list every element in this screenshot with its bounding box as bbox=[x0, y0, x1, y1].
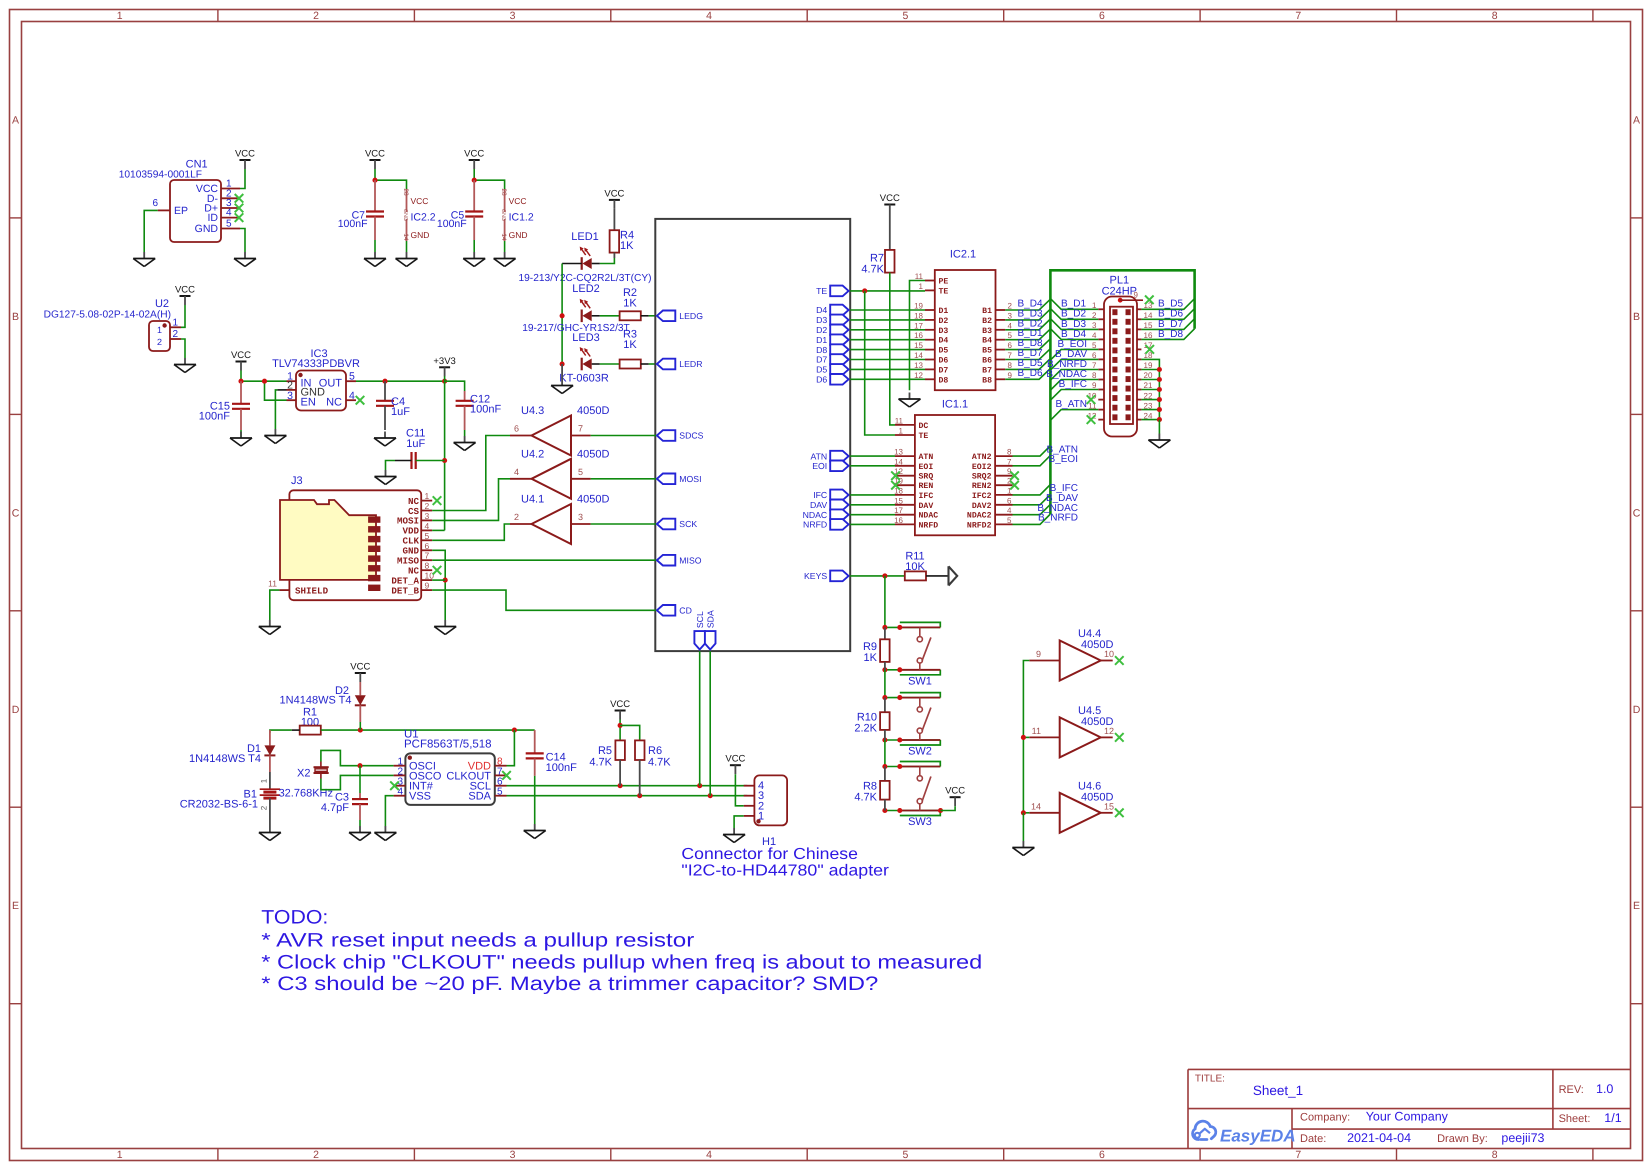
svg-text:1: 1 bbox=[117, 1149, 123, 1161]
annotation connector text bbox=[681, 846, 889, 880]
svg-text:GND: GND bbox=[402, 209, 408, 221]
port EOI on MCU right bbox=[812, 461, 848, 472]
resistor R5 4.7K bbox=[589, 740, 625, 785]
svg-text:D7: D7 bbox=[816, 355, 827, 365]
svg-text:4: 4 bbox=[425, 521, 430, 531]
svg-text:EOI2: EOI2 bbox=[972, 463, 992, 472]
svg-text:1: 1 bbox=[899, 427, 904, 436]
svg-text:9: 9 bbox=[1008, 371, 1013, 380]
wire U4.3 output to port bbox=[591, 435, 656, 437]
svg-text:D4: D4 bbox=[939, 337, 949, 346]
wire IC1.1 to bus net B_IFC bbox=[1013, 483, 1079, 495]
wire SW1 to SW2 bbox=[884, 670, 886, 698]
power flag VCC at C5 bbox=[464, 149, 484, 170]
wire C7 to ground bbox=[374, 240, 376, 252]
wire IC1.1 to bus net B_ATN bbox=[1013, 444, 1079, 456]
svg-text:B3: B3 bbox=[982, 327, 992, 336]
wire IC1.2 GND pin to ground bbox=[504, 241, 506, 252]
wire CN1 GND pin5 to ground bbox=[240, 229, 245, 253]
svg-text:GND: GND bbox=[509, 230, 528, 240]
svg-text:D1: D1 bbox=[816, 335, 827, 345]
svg-text:13: 13 bbox=[894, 448, 903, 457]
svg-text:7: 7 bbox=[1295, 1149, 1301, 1161]
svg-text:B2: B2 bbox=[982, 317, 992, 326]
port SDA on MCU bottom bbox=[705, 610, 716, 649]
power flag VCC at C7 bbox=[365, 149, 385, 170]
wire J3 GND to ground rail bbox=[432, 550, 448, 620]
resistor R6 4.7K bbox=[635, 740, 671, 795]
capacitor C4 1uF bbox=[376, 381, 410, 430]
wire PL1 pin5 net B_EOI bbox=[1050, 339, 1098, 360]
svg-text:14: 14 bbox=[1031, 801, 1041, 811]
svg-text:SHIELD: SHIELD bbox=[295, 586, 329, 597]
wire C12 to ground bbox=[464, 430, 466, 436]
svg-text:KEYS: KEYS bbox=[804, 571, 827, 581]
ground at IC2.2 bbox=[396, 252, 418, 267]
power flag VCC at R5 R6 bbox=[610, 699, 630, 720]
svg-text:4.7K: 4.7K bbox=[854, 792, 877, 804]
svg-text:VCC: VCC bbox=[604, 188, 624, 199]
svg-text:1: 1 bbox=[173, 318, 179, 329]
resistor R11 10K bbox=[905, 551, 949, 581]
svg-text:8: 8 bbox=[1492, 10, 1498, 22]
buffer U4.6 4050D bbox=[1029, 780, 1123, 833]
EasyEDA logo bbox=[1193, 1121, 1296, 1145]
svg-text:MISO: MISO bbox=[679, 555, 701, 565]
port TE on MCU right bbox=[816, 286, 849, 297]
wire U4.1 output to port bbox=[591, 523, 656, 525]
svg-text:D: D bbox=[1633, 704, 1641, 716]
port IFC on MCU right bbox=[813, 490, 848, 501]
svg-text:7: 7 bbox=[1007, 457, 1012, 466]
ground at C3 bbox=[349, 826, 371, 841]
wire VCC to U2 pin1 bbox=[181, 305, 185, 327]
svg-text:SDA: SDA bbox=[705, 610, 715, 628]
wire IC2.1 B1 to bus net B_D4 bbox=[1005, 299, 1050, 311]
svg-text:6: 6 bbox=[425, 541, 430, 551]
svg-text:U2: U2 bbox=[155, 298, 169, 310]
svg-text:16: 16 bbox=[894, 516, 903, 525]
wire IC2.1 B8 to bus net B_D6 bbox=[1005, 368, 1050, 380]
svg-text:SDA: SDA bbox=[468, 791, 491, 803]
crystal X2 32.768KHz bbox=[279, 762, 333, 800]
svg-text:Date:: Date: bbox=[1300, 1133, 1326, 1145]
wire U1 VSS to ground bbox=[385, 796, 393, 826]
svg-text:VCC: VCC bbox=[880, 193, 900, 204]
wire R3 to LEDR port bbox=[649, 363, 656, 365]
svg-text:1K: 1K bbox=[623, 298, 637, 310]
wire VCC node to C5 and IC1.2 bbox=[472, 169, 505, 189]
annotation TODO text bbox=[261, 907, 982, 996]
MCU main box U3 bbox=[655, 219, 850, 651]
svg-text:14: 14 bbox=[500, 233, 507, 241]
wire IC1.1 to bus net B_NRFD bbox=[1013, 513, 1079, 525]
svg-text:CR2032-BS-6-1: CR2032-BS-6-1 bbox=[180, 799, 258, 811]
wire IC1.1 to bus net B_NDAC bbox=[1013, 503, 1079, 515]
svg-text:2.2K: 2.2K bbox=[854, 723, 877, 735]
ground at CN1 EP bbox=[133, 252, 155, 267]
svg-text:D5: D5 bbox=[816, 365, 827, 375]
svg-text:REN: REN bbox=[919, 482, 934, 491]
resistor R10 2.2K bbox=[854, 698, 889, 740]
svg-text:4: 4 bbox=[706, 10, 712, 22]
port D7 on MCU right bbox=[816, 354, 849, 365]
svg-text:18: 18 bbox=[914, 311, 923, 320]
svg-text:15: 15 bbox=[894, 496, 903, 505]
svg-text:NDAC2: NDAC2 bbox=[967, 512, 992, 521]
buffer U4.3 4050D bbox=[510, 405, 609, 456]
svg-text:IC2.1: IC2.1 bbox=[950, 249, 976, 261]
svg-text:2: 2 bbox=[173, 329, 179, 340]
svg-text:GND: GND bbox=[500, 209, 506, 221]
buffer IC2.1 bbox=[914, 249, 1012, 391]
svg-text:B: B bbox=[1633, 311, 1640, 323]
svg-text:9: 9 bbox=[425, 581, 430, 591]
wire PL1 pin6 net B_DAV bbox=[1050, 349, 1098, 370]
svg-text:5: 5 bbox=[902, 1149, 908, 1161]
svg-text:NRFD: NRFD bbox=[803, 520, 827, 530]
svg-text:6: 6 bbox=[152, 198, 158, 209]
svg-text:4050D: 4050D bbox=[577, 448, 609, 460]
ground at PL1 bbox=[1148, 434, 1170, 449]
svg-text:ATN: ATN bbox=[810, 451, 827, 461]
svg-text:6: 6 bbox=[1099, 10, 1105, 22]
port CD on MCU left bbox=[657, 605, 692, 616]
svg-text:1K: 1K bbox=[623, 339, 637, 351]
wire VCC node to C7 and IC2.2 bbox=[372, 169, 406, 189]
wire PL1 pin3 net B_D3 bbox=[1050, 319, 1098, 330]
svg-text:D8: D8 bbox=[939, 376, 949, 385]
svg-text:B1: B1 bbox=[982, 307, 992, 316]
wires MCU D ports to IC2.1 bbox=[850, 310, 925, 379]
label IC1.1 title bbox=[942, 399, 968, 411]
wire IC2.1 B6 to bus net B_D7 bbox=[1005, 348, 1050, 360]
power pins IC2.2 bbox=[402, 188, 436, 241]
resistor R1 100 bbox=[292, 707, 321, 735]
svg-text:* C3 should be ~20 pF. Maybe a: * C3 should be ~20 pF. Maybe a trimmer c… bbox=[261, 973, 878, 995]
svg-text:Connector for Chinese: Connector for Chinese bbox=[681, 846, 858, 863]
svg-text:1N4148WS T4: 1N4148WS T4 bbox=[189, 753, 261, 765]
ground at IC3 GND bbox=[264, 429, 286, 444]
svg-text:GND: GND bbox=[195, 223, 219, 235]
port SCK on MCU left bbox=[657, 519, 697, 530]
ground at J3 GND bbox=[434, 620, 456, 635]
svg-text:2: 2 bbox=[313, 10, 319, 22]
svg-text:D3: D3 bbox=[939, 327, 949, 336]
regulator IC3 TLV74333PDBVR bbox=[272, 348, 364, 411]
svg-text:11: 11 bbox=[1032, 726, 1041, 736]
capacitor C15 100nF bbox=[199, 381, 250, 430]
wire VCC to IC3 IN and C15 bbox=[238, 371, 286, 384]
svg-text:5: 5 bbox=[226, 219, 232, 230]
wire R1 to D1 bbox=[270, 730, 292, 733]
ground at C11 bbox=[375, 470, 397, 485]
svg-text:D2: D2 bbox=[816, 325, 827, 335]
wire +3V3 to C12 and VDD rail bbox=[442, 376, 447, 530]
diode D2 1N4148WS T4 bbox=[280, 682, 366, 722]
svg-text:* AVR reset input needs a pull: * AVR reset input needs a pullup resisto… bbox=[261, 930, 695, 952]
power flag VCC at R4 bbox=[604, 188, 624, 209]
power flag VCC at SW3 bbox=[945, 786, 965, 807]
capacitor C7 100nF bbox=[338, 180, 384, 240]
svg-text:D1: D1 bbox=[939, 307, 949, 316]
svg-text:7: 7 bbox=[1295, 10, 1301, 22]
switch SW1 bbox=[882, 622, 940, 687]
svg-text:DG127-5.08-02P-14-02A(H): DG127-5.08-02P-14-02A(H) bbox=[44, 310, 171, 321]
svg-text:D6: D6 bbox=[816, 375, 827, 385]
wire C15 to ground bbox=[240, 430, 242, 438]
wire VCC to SW3 bbox=[941, 806, 956, 810]
svg-text:Company:: Company: bbox=[1300, 1112, 1350, 1124]
svg-text:EN: EN bbox=[301, 397, 316, 409]
svg-text:3: 3 bbox=[425, 511, 430, 521]
ground at J3 SHIELD bbox=[259, 620, 281, 635]
svg-text:14: 14 bbox=[402, 233, 409, 241]
svg-text:X2: X2 bbox=[297, 768, 310, 780]
wire J3 DET_A to ground rail bbox=[432, 579, 445, 581]
svg-text:2021-04-04: 2021-04-04 bbox=[1347, 1131, 1411, 1145]
wires MCU GPIB ports to IC1.1 bbox=[850, 456, 895, 524]
svg-text:3: 3 bbox=[578, 512, 583, 522]
svg-text:17: 17 bbox=[914, 321, 923, 330]
svg-text:Sheet_1: Sheet_1 bbox=[1253, 1083, 1303, 1098]
svg-text:4050D: 4050D bbox=[577, 494, 609, 506]
power pins IC1.2 bbox=[500, 188, 534, 241]
svg-text:12: 12 bbox=[1104, 726, 1114, 736]
resistor R3 1K bbox=[600, 329, 649, 369]
svg-text:6: 6 bbox=[1099, 1149, 1105, 1161]
svg-text:VCC: VCC bbox=[175, 285, 195, 296]
svg-text:A: A bbox=[1633, 115, 1640, 127]
capacitor C11 1uF bbox=[386, 428, 445, 471]
svg-text:8: 8 bbox=[425, 561, 430, 571]
svg-text:B5: B5 bbox=[982, 347, 992, 356]
wire VCC to H1 pin2 bbox=[735, 774, 743, 806]
svg-text:3: 3 bbox=[1008, 311, 1013, 320]
port LEDR on MCU left bbox=[657, 359, 703, 370]
svg-text:C: C bbox=[1633, 507, 1641, 519]
wire R7 to IC1.1 DC bbox=[890, 273, 895, 425]
svg-text:1uF: 1uF bbox=[406, 438, 425, 450]
power flag VCC at H1 bbox=[725, 754, 745, 775]
wire IC2.1 B5 to bus net B_D8 bbox=[1005, 338, 1050, 350]
svg-text:B_IFC: B_IFC bbox=[1059, 379, 1087, 390]
svg-text:Your Company: Your Company bbox=[1366, 1110, 1449, 1124]
svg-text:3: 3 bbox=[287, 390, 293, 402]
svg-text:NRFD2: NRFD2 bbox=[967, 521, 992, 530]
wire U2 pin2 to ground bbox=[181, 339, 185, 358]
svg-text:Sheet:: Sheet: bbox=[1559, 1113, 1591, 1125]
svg-text:B_ATN: B_ATN bbox=[1056, 399, 1088, 410]
svg-text:LEDR: LEDR bbox=[679, 359, 702, 369]
port KEYS on MCU right bbox=[804, 571, 849, 582]
svg-text:SW3: SW3 bbox=[908, 816, 932, 828]
RTC U1 PCF8563T/5,518 bbox=[390, 729, 511, 805]
ground at C5 bbox=[463, 252, 485, 267]
svg-text:J3: J3 bbox=[291, 475, 303, 487]
wire R4 to LED1 bbox=[600, 253, 615, 264]
svg-text:10: 10 bbox=[1104, 649, 1114, 659]
svg-text:U4.1: U4.1 bbox=[521, 494, 544, 506]
svg-text:1: 1 bbox=[260, 778, 269, 783]
svg-text:+3V3: +3V3 bbox=[433, 356, 455, 367]
svg-text:MOSI: MOSI bbox=[679, 474, 701, 484]
svg-text:LED2: LED2 bbox=[572, 283, 600, 295]
svg-text:R5: R5 bbox=[598, 745, 612, 757]
svg-text:17: 17 bbox=[894, 506, 903, 515]
svg-text:VCC: VCC bbox=[411, 196, 429, 206]
svg-text:28: 28 bbox=[402, 188, 409, 196]
svg-text:SRQ: SRQ bbox=[919, 473, 934, 482]
wire SW2 to SW3 bbox=[884, 740, 886, 767]
svg-text:ATN: ATN bbox=[919, 453, 934, 462]
svg-text:VCC: VCC bbox=[610, 699, 630, 710]
svg-text:IFC2: IFC2 bbox=[972, 492, 992, 501]
wire C5 to ground bbox=[473, 240, 475, 252]
svg-text:4.7K: 4.7K bbox=[589, 757, 612, 769]
wire R2 to LEDG port bbox=[649, 315, 656, 317]
svg-text:VCC: VCC bbox=[231, 350, 251, 361]
svg-text:B6: B6 bbox=[982, 357, 992, 366]
svg-text:A: A bbox=[12, 115, 19, 127]
svg-text:SW1: SW1 bbox=[908, 675, 932, 687]
svg-text:TE: TE bbox=[939, 287, 949, 296]
svg-text:11: 11 bbox=[268, 579, 277, 589]
svg-text:IC1.2: IC1.2 bbox=[509, 212, 534, 224]
ground at U4 inputs bbox=[1012, 841, 1034, 856]
port D3 on MCU right bbox=[816, 315, 849, 326]
power flag +3V3 bbox=[433, 356, 455, 377]
svg-text:4.7K: 4.7K bbox=[648, 757, 671, 769]
svg-text:U4.2: U4.2 bbox=[521, 448, 544, 460]
port ATN on MCU right bbox=[810, 451, 848, 462]
svg-text:SCK: SCK bbox=[679, 519, 697, 529]
svg-text:4: 4 bbox=[226, 208, 232, 219]
wire PL1 pin15 net B_D7 bbox=[1141, 319, 1194, 330]
svg-text:D6: D6 bbox=[939, 357, 949, 366]
svg-text:4: 4 bbox=[1008, 321, 1013, 330]
svg-text:15: 15 bbox=[1104, 801, 1114, 811]
svg-text:EOI: EOI bbox=[812, 461, 827, 471]
wire IC1.1 to bus net B_DAV bbox=[1013, 493, 1079, 505]
buffer U4.4 4050D bbox=[1029, 628, 1123, 681]
svg-text:4: 4 bbox=[706, 1149, 712, 1161]
port DAV on MCU right bbox=[810, 500, 849, 511]
svg-text:NDAC: NDAC bbox=[803, 510, 828, 520]
capacitor C5 100nF bbox=[437, 180, 483, 240]
svg-text:B_D8: B_D8 bbox=[1158, 329, 1183, 340]
wire KEYS resistor ladder bbox=[884, 576, 886, 628]
svg-text:B_D6: B_D6 bbox=[1018, 368, 1043, 379]
svg-text:LED1: LED1 bbox=[571, 231, 599, 243]
svg-text:C: C bbox=[12, 507, 20, 519]
wire TE port to IC2.1 TE and IC1.1 TE bbox=[850, 288, 925, 435]
svg-text:2: 2 bbox=[157, 337, 162, 347]
wire J3 VDD to +3V3 rail bbox=[432, 529, 444, 531]
wire PL1 pin4 net B_D4 bbox=[1050, 329, 1098, 340]
ground at H1 pin1 bbox=[723, 828, 745, 843]
svg-text:100nF: 100nF bbox=[546, 762, 577, 774]
svg-text:B_NRFD: B_NRFD bbox=[1038, 513, 1078, 524]
wire J3 MOSI to U4.2 bbox=[432, 479, 510, 521]
wire IC2.1 B2 to bus net B_D3 bbox=[1005, 308, 1050, 320]
svg-text:11: 11 bbox=[915, 272, 924, 281]
svg-text:SRQ2: SRQ2 bbox=[972, 473, 992, 482]
capacitor C12 100nF bbox=[456, 391, 502, 430]
port MOSI on MCU left bbox=[657, 474, 702, 485]
wire VCC to CN1 pin1 bbox=[240, 169, 245, 189]
wire IC3 GND to ground bbox=[275, 390, 286, 429]
svg-text:6: 6 bbox=[514, 424, 519, 434]
svg-text:5: 5 bbox=[1007, 516, 1012, 525]
svg-text:4.7K: 4.7K bbox=[861, 264, 884, 276]
svg-text:12: 12 bbox=[914, 371, 923, 380]
svg-text:7: 7 bbox=[1008, 351, 1013, 360]
svg-text:14: 14 bbox=[914, 351, 923, 360]
svg-text:2: 2 bbox=[260, 805, 269, 810]
wire SCL port to SCL net bbox=[699, 651, 701, 786]
svg-text:Drawn By:: Drawn By: bbox=[1437, 1133, 1488, 1145]
svg-text:R6: R6 bbox=[648, 745, 662, 757]
port D4 on MCU right bbox=[816, 305, 849, 316]
title block bbox=[1188, 1069, 1631, 1148]
svg-text:3: 3 bbox=[510, 1149, 516, 1161]
wire X2 to U1 OSCI bbox=[321, 750, 394, 768]
wire U1 SCL net bbox=[507, 783, 748, 788]
svg-text:VCC: VCC bbox=[509, 196, 527, 206]
svg-text:VSS: VSS bbox=[409, 791, 431, 803]
ground at IC2.1 PE bbox=[899, 393, 921, 408]
svg-text:KT-0603R: KT-0603R bbox=[559, 373, 609, 385]
svg-text:VCC: VCC bbox=[945, 786, 965, 797]
buffer IC1.1 bbox=[891, 415, 1019, 535]
svg-text:EOI: EOI bbox=[919, 463, 934, 472]
svg-text:8: 8 bbox=[1008, 361, 1013, 370]
resistor R7 4.7K bbox=[861, 214, 894, 276]
svg-text:100nF: 100nF bbox=[199, 411, 230, 423]
capacitor C3 4.7pF bbox=[321, 766, 368, 826]
svg-text:B4: B4 bbox=[982, 337, 992, 346]
wire J3 DET_B to CD port bbox=[432, 590, 656, 610]
resistor R8 4.7K bbox=[854, 767, 889, 811]
svg-text:OUT: OUT bbox=[319, 378, 343, 390]
wire IC2.1 B3 to bus net B_D2 bbox=[1005, 318, 1050, 330]
power flag VCC at U2 bbox=[175, 285, 195, 306]
buffer U4.5 4050D bbox=[1029, 705, 1123, 758]
port D5 on MCU right bbox=[816, 364, 849, 375]
ground at U2 pin2 bbox=[174, 358, 196, 373]
svg-text:U4.3: U4.3 bbox=[521, 405, 544, 417]
svg-text:1: 1 bbox=[919, 282, 924, 291]
svg-text:15: 15 bbox=[914, 341, 923, 350]
svg-text:VCC: VCC bbox=[235, 149, 255, 160]
svg-text:NRFD: NRFD bbox=[919, 521, 939, 530]
svg-text:14: 14 bbox=[894, 457, 903, 466]
wire PL1 pin2 net B_D2 bbox=[1050, 309, 1098, 320]
svg-text:7: 7 bbox=[578, 424, 583, 434]
connector U2 DG127-5.08-02P-14-02A(H) bbox=[44, 298, 181, 351]
svg-text:2: 2 bbox=[1008, 302, 1013, 311]
port D6 on MCU right bbox=[816, 374, 849, 385]
svg-text:IFC: IFC bbox=[813, 490, 827, 500]
resistor R9 1K bbox=[863, 627, 890, 669]
svg-text:4: 4 bbox=[1007, 506, 1012, 515]
svg-text:D4: D4 bbox=[816, 305, 827, 315]
svg-text:B8: B8 bbox=[982, 376, 992, 385]
port SCL on MCU bottom bbox=[694, 611, 705, 649]
ground at C7 bbox=[364, 252, 386, 267]
svg-text:TODO:: TODO: bbox=[261, 907, 328, 929]
